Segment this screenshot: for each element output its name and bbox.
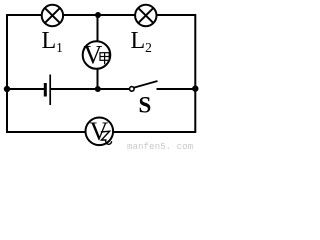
node B junction dot — [95, 86, 101, 92]
wire middle rail left to battery — [7, 88, 45, 90]
wire bottom rail right segment — [113, 131, 196, 133]
wire L1 to node A — [63, 14, 98, 16]
lamp L2 — [135, 5, 156, 26]
wire switch to node D — [157, 88, 197, 90]
node C junction dot (left rail / middle rail) — [4, 86, 10, 92]
wire bottom rail left segment — [6, 131, 86, 133]
node A junction dot — [95, 12, 101, 18]
svg-text:S: S — [139, 93, 152, 118]
wire right vertical rail — [194, 14, 196, 133]
node D junction dot (right rail / middle rail) — [192, 85, 198, 91]
svg-text:manfen5. com: manfen5. com — [127, 141, 194, 151]
wire left vertical rail — [6, 14, 8, 133]
lamp L1 — [42, 5, 63, 26]
svg-text:L1: L1 — [42, 28, 63, 55]
voltmeter U1 V甲 — [83, 41, 111, 70]
wire battery to node B to switch — [50, 88, 129, 90]
switch S pivot circle — [130, 87, 135, 92]
wire node A down to voltmeter V甲 — [97, 15, 99, 42]
wire L2 to top-right corner — [157, 14, 197, 16]
battery BT1 negative plate (short thick) — [44, 83, 47, 97]
battery BT1 positive plate (long thin) — [49, 75, 51, 106]
switch S blade — [134, 81, 158, 88]
wire top-left segment — [6, 14, 42, 16]
voltmeter U2 V乙 — [86, 117, 114, 146]
wire node A to L2 — [98, 14, 135, 16]
wire voltmeter V甲 to node B — [97, 69, 99, 90]
svg-text:L2: L2 — [131, 28, 152, 55]
